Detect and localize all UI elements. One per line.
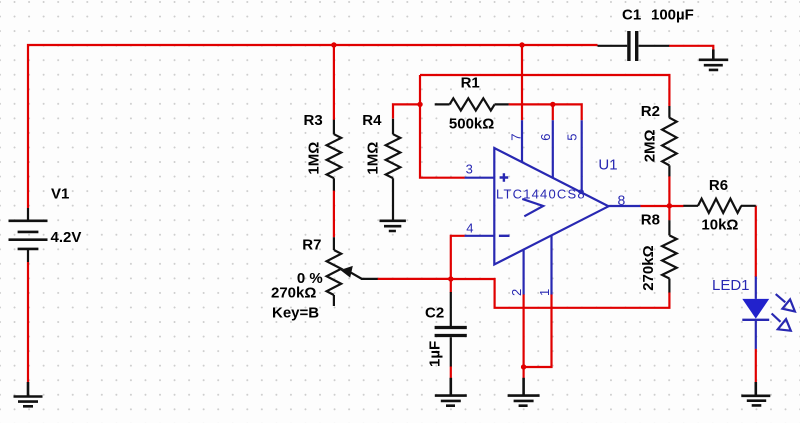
- wire pin 6 drop: [552, 104, 554, 120]
- minus input mark: [499, 235, 510, 237]
- resistor R7 potentiometer: [327, 237, 378, 306]
- wire top power rail: [28, 45, 598, 208]
- R7 wiper arrowhead: [340, 266, 353, 278]
- hysteresis chevron: [522, 199, 543, 216]
- svg-text:R1: R1: [461, 74, 480, 91]
- junction pins 1-2 ground node: [521, 364, 526, 369]
- resistor R6: [683, 199, 755, 213]
- LED1: [742, 277, 795, 349]
- pin 4 stub: [465, 235, 495, 237]
- wire R3 to R7: [333, 190, 335, 237]
- svg-text:LED1: LED1: [712, 277, 750, 294]
- op-amp U1 LTC1440CS8: [465, 120, 641, 294]
- wire node B to C2: [450, 279, 452, 293]
- pin 1 stub: [550, 236, 552, 295]
- svg-text:5: 5: [565, 134, 580, 141]
- ground (LED): [741, 382, 770, 405]
- wire ground node to ground stem: [522, 367, 524, 378]
- wire R1 right to pins 5 and 6: [509, 104, 582, 120]
- wire node A over to R2 top: [420, 75, 669, 106]
- pin 5 stub: [581, 120, 583, 193]
- wire R6 right down to LED: [755, 206, 757, 277]
- wire battery negative to ground: [27, 262, 29, 383]
- svg-text:1µF: 1µF: [427, 341, 444, 367]
- LED triangle: [742, 299, 769, 319]
- pin 6 stub: [552, 120, 554, 178]
- LED emission arrow 2: [772, 314, 781, 322]
- ground (battery): [14, 382, 43, 406]
- svg-text:8: 8: [618, 192, 626, 208]
- svg-text:R3: R3: [304, 112, 323, 129]
- svg-text:100µF: 100µF: [651, 7, 694, 24]
- svg-text:R4: R4: [362, 112, 382, 129]
- wire node A down to pin 3: [420, 75, 465, 178]
- svg-text:10kΩ: 10kΩ: [701, 217, 738, 234]
- pin 7 stub: [521, 120, 523, 162]
- svg-text:1MΩ: 1MΩ: [306, 142, 323, 175]
- resistor R4: [386, 119, 401, 220]
- svg-text:U1: U1: [598, 157, 617, 174]
- wire pin 1 to ground node: [524, 294, 552, 367]
- svg-text:7: 7: [509, 134, 524, 141]
- svg-text:270kΩ: 270kΩ: [640, 245, 657, 290]
- svg-text:R2: R2: [641, 103, 660, 120]
- svg-text:6: 6: [538, 134, 553, 141]
- svg-text:4: 4: [466, 221, 473, 236]
- capacitor C2: [435, 292, 467, 367]
- svg-text:270kΩ: 270kΩ: [271, 284, 316, 301]
- resistor R2: [662, 106, 677, 176]
- LED emission arrow 1: [776, 294, 786, 302]
- wire pin 4 to node B: [451, 236, 465, 279]
- svg-text:2MΩ: 2MΩ: [642, 129, 659, 162]
- wire node B to R8 bottom: [451, 279, 670, 308]
- wire R4 top to node A: [393, 104, 420, 118]
- pin 3 stub: [465, 177, 495, 179]
- plus input mark: [500, 173, 509, 182]
- ground (C2): [435, 378, 467, 406]
- ground (op-amp pins 1,2): [508, 378, 540, 406]
- wire R2 bottom through output node to R8 top: [668, 176, 670, 220]
- svg-text:R6: R6: [709, 177, 728, 194]
- resistor R3: [327, 120, 342, 191]
- wire pin 2 to ground node: [522, 294, 524, 367]
- resistor R8: [662, 220, 677, 292]
- ground (R4): [380, 221, 406, 231]
- svg-text:2: 2: [509, 289, 524, 296]
- capacitor C1: [598, 31, 670, 61]
- svg-text:3: 3: [466, 162, 473, 177]
- junction top rail / R3: [331, 42, 336, 47]
- pin 2 stub: [522, 250, 524, 295]
- wire output pin 8 to R6: [640, 205, 683, 207]
- wire C2 bottom to ground stem: [450, 366, 452, 378]
- ground (C1): [699, 50, 728, 70]
- svg-text:V1: V1: [51, 185, 69, 202]
- svg-text:C2: C2: [425, 304, 444, 321]
- wire rail to pin 7: [521, 45, 523, 120]
- svg-text:1: 1: [537, 289, 552, 296]
- svg-text:R7: R7: [302, 236, 321, 253]
- svg-text:4.2V: 4.2V: [51, 229, 82, 246]
- junction node A (R1 left): [417, 102, 422, 107]
- junction top rail / pin 7: [519, 42, 524, 47]
- wire rail to R3: [333, 45, 335, 120]
- svg-text:LTC1440CS8: LTC1440CS8: [496, 187, 586, 202]
- svg-text:R8: R8: [641, 212, 660, 229]
- junction R1 right / pin 6: [550, 102, 555, 107]
- pin 8 output stub: [609, 205, 641, 207]
- battery V1: [9, 208, 48, 262]
- resistor R1: [435, 98, 509, 110]
- svg-text:1MΩ: 1MΩ: [365, 142, 382, 175]
- wire C1 right to ground: [669, 46, 713, 51]
- junction node B (pin4/C2/wiper): [448, 276, 453, 281]
- wire R7 wiper to node B: [378, 278, 451, 280]
- junction output node: [667, 203, 672, 208]
- svg-text:C1: C1: [622, 7, 641, 24]
- svg-text:500kΩ: 500kΩ: [449, 116, 494, 133]
- wire LED cathode to ground: [755, 349, 757, 383]
- svg-text:Key=B: Key=B: [272, 304, 319, 321]
